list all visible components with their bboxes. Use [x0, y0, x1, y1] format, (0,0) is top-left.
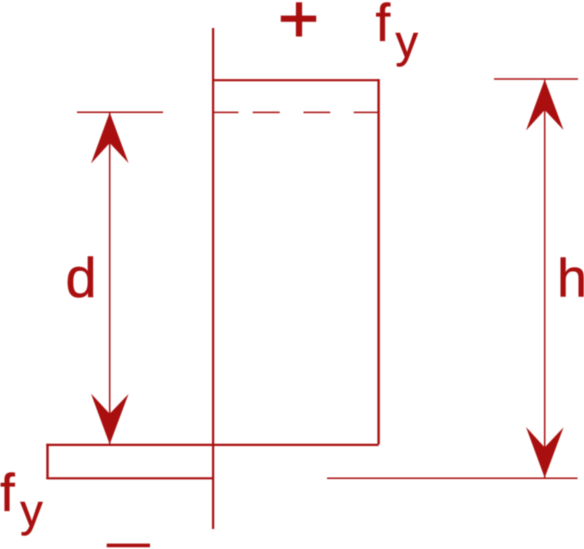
plus sign horizontal bar: [281, 16, 316, 22]
neutral axis vertical line: [212, 28, 214, 529]
h dimension arrow shaft: [544, 80, 546, 478]
plus sign vertical bar: [296, 2, 302, 36]
minus sign: [107, 544, 150, 548]
d arrowhead up: [91, 113, 129, 164]
d dimension top tick line: [77, 111, 163, 113]
svg-text:f: f: [376, 0, 391, 53]
h dimension top tick line: [494, 78, 578, 80]
top edge of positive stress block: [212, 79, 379, 81]
h dimension bottom reference line: [327, 477, 578, 479]
svg-text:y: y: [20, 485, 43, 536]
d dimension arrow shaft: [109, 113, 111, 444]
d arrowhead down: [91, 394, 129, 445]
right edge of positive stress block: [377, 79, 379, 444]
bottom edge of negative stress block: [46, 477, 213, 479]
h arrowhead down: [526, 427, 564, 478]
svg-text:d: d: [66, 246, 97, 309]
svg-text:h: h: [557, 249, 584, 309]
yield plateau dashed line (4 dashes): [213, 111, 378, 113]
svg-text:f: f: [0, 464, 15, 523]
h arrowhead up: [526, 80, 564, 131]
svg-text:y: y: [396, 16, 419, 67]
shared bottom edge of positive block / top edge of negative block: [46, 444, 378, 446]
left edge of negative stress block: [46, 444, 48, 479]
